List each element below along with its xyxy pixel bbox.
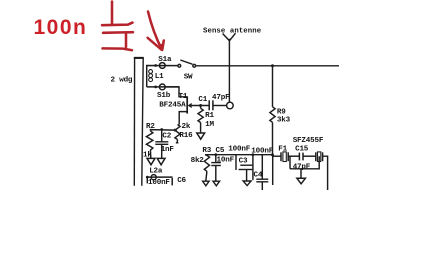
C6 plate bar — [171, 178, 173, 185]
T1 gate arrow — [188, 103, 192, 108]
wire coil bottom to S1b — [147, 86, 179, 88]
ferrite rod top bar — [134, 57, 144, 59]
junction dot rail bottom R9 — [271, 153, 274, 156]
ground R2 — [147, 158, 155, 164]
svg-text:R3 C5: R3 C5 — [202, 147, 224, 155]
svg-text:R2: R2 — [146, 123, 155, 131]
svg-text:R1: R1 — [205, 112, 214, 120]
svg-text:100n: 100n — [34, 16, 88, 39]
C4 lead top — [261, 155, 263, 179]
C1 plate left — [208, 100, 210, 110]
C2 lead top — [161, 130, 163, 142]
svg-text:1k: 1k — [143, 151, 152, 159]
C3 plate top — [240, 164, 252, 166]
C1 plate right — [212, 100, 214, 110]
R9 rail drop below — [272, 155, 274, 185]
S1a terminal circle — [159, 63, 165, 69]
junction dot coil bottom — [154, 86, 157, 89]
F1 plate left — [280, 152, 282, 161]
red sketched capacitor bottom bar — [103, 48, 133, 50]
R2 lead bottom — [149, 150, 151, 158]
R16 bottom tick — [176, 140, 179, 143]
R1 lead top — [200, 106, 202, 109]
R9 lead bottom — [272, 122, 274, 155]
bottom mid rail — [205, 154, 273, 156]
R1 lead bottom — [200, 123, 202, 133]
svg-text:S1a: S1a — [158, 56, 172, 64]
svg-text:C1: C1 — [198, 96, 207, 104]
svg-text:1M: 1M — [205, 121, 214, 129]
svg-text:2 wdg: 2 wdg — [111, 77, 133, 85]
C4 plate bottom — [256, 181, 268, 183]
antenna mast — [228, 41, 230, 103]
svg-text:100nF: 100nF — [228, 146, 250, 154]
svg-text:R16: R16 — [179, 132, 193, 140]
junction dot coil top — [154, 64, 157, 67]
ferrite rod left line — [133, 58, 135, 186]
resistor R9 — [270, 107, 275, 123]
red sketched capacitor plate 1 — [102, 23, 133, 26]
wire coil top to S1a — [147, 66, 178, 87]
switch lever — [180, 60, 192, 64]
node stub below L2a — [146, 177, 148, 183]
svg-text:R9: R9 — [277, 109, 286, 117]
resistor R2 — [146, 131, 153, 150]
F1 plate right — [287, 152, 289, 161]
F1 body box — [283, 152, 286, 162]
junction dot L2a — [146, 176, 149, 179]
F2 body box — [318, 152, 321, 162]
C4 left bar — [252, 155, 254, 180]
red sketched capacitor top lead — [111, 2, 114, 25]
svg-text:F1: F1 — [278, 146, 287, 154]
S1b terminal circle — [159, 84, 165, 90]
svg-text:SFZ455F: SFZ455F — [293, 137, 324, 145]
red sketched capacitor plate 2 — [103, 31, 133, 34]
svg-text:T1: T1 — [179, 93, 188, 101]
C3 lead bottom — [246, 170, 248, 181]
resistor R1 — [198, 108, 203, 122]
top rail wire — [196, 65, 339, 67]
svg-text:8k2: 8k2 — [191, 157, 205, 165]
C2 lead bottom — [161, 144, 163, 158]
svg-text:Sense antenne: Sense antenne — [203, 27, 262, 35]
svg-text:C15: C15 — [295, 146, 309, 154]
C5 plate top — [211, 162, 221, 164]
svg-text:L2a: L2a — [149, 167, 163, 175]
svg-text:C6: C6 — [177, 177, 186, 185]
wiper arrowhead — [174, 128, 177, 132]
R3 top corner — [205, 154, 207, 157]
ground R1 — [197, 133, 205, 139]
svg-text:47pF: 47pF — [293, 163, 311, 171]
antenna V right — [229, 33, 235, 41]
bracket ground lead — [300, 169, 302, 178]
coil L1 loop 1 — [149, 70, 153, 74]
C5 lead bottom — [215, 166, 217, 182]
svg-text:2k: 2k — [182, 123, 191, 131]
antenna V left — [223, 34, 230, 41]
wire C15 to F2 — [303, 155, 316, 157]
C2 plate top — [155, 141, 168, 143]
svg-text:47pF: 47pF — [212, 94, 230, 102]
junction dot gate node — [199, 104, 202, 107]
T1 channel bar — [186, 96, 188, 113]
junction dot C2 — [160, 128, 163, 131]
C3 rail corner drop — [235, 155, 237, 170]
svg-text:3k3: 3k3 — [277, 117, 291, 125]
coil L1 loop 3 — [149, 78, 153, 82]
ground C2 — [157, 158, 165, 164]
junction dot rail R9 — [271, 64, 274, 67]
svg-text:S1b: S1b — [157, 92, 171, 100]
C2 plate bottom — [155, 143, 168, 145]
red arrow barb left — [148, 38, 162, 50]
svg-text:C4: C4 — [254, 171, 263, 179]
C15 plate left — [298, 153, 300, 161]
svg-text:C2: C2 — [162, 132, 171, 140]
antenna terminal circle — [227, 102, 234, 109]
wire S1b to T1 drain — [165, 87, 187, 97]
R9 lead top — [272, 66, 274, 107]
coil L1 loop 2 — [149, 74, 153, 78]
ground filter — [297, 178, 306, 184]
F2 plate right — [322, 152, 324, 161]
svg-text:100nF: 100nF — [148, 179, 170, 187]
ferrite rod right line — [142, 58, 143, 186]
C5 plate bottom — [211, 165, 221, 167]
antenna apex arrow — [228, 39, 231, 42]
ground C3 — [243, 181, 251, 186]
C4 stub below — [261, 182, 263, 190]
T1 gate wire — [192, 105, 209, 107]
wire F1 to C15 — [288, 155, 299, 157]
junction dot C5 — [214, 153, 217, 156]
svg-text:C3: C3 — [239, 157, 248, 165]
L2a wire — [146, 176, 173, 178]
resistor R3 — [204, 155, 209, 171]
resistor R16 pot — [175, 125, 180, 140]
red arrow tip fill — [159, 44, 164, 51]
C5 lead top — [215, 155, 217, 163]
ground R3 — [203, 181, 210, 186]
filter rail left — [273, 155, 282, 157]
svg-text:L1: L1 — [155, 73, 164, 81]
C15 plate right — [302, 153, 304, 161]
R2 top wire with wiper — [150, 130, 174, 131]
switch pole small circle — [178, 64, 181, 67]
ground C5 — [213, 181, 220, 186]
switch throw small circle — [193, 64, 196, 67]
svg-text:10nF: 10nF — [217, 157, 235, 165]
svg-text:1nF: 1nF — [161, 146, 175, 154]
svg-text:100nF: 100nF — [251, 147, 273, 155]
svg-text:SW: SW — [184, 73, 193, 81]
red sketched capacitor lower lead — [125, 33, 128, 47]
svg-text:BF245A: BF245A — [159, 101, 186, 109]
C4 plate top — [256, 178, 268, 180]
T1 source lead — [179, 112, 187, 125]
junction dot C4 bar — [252, 153, 255, 156]
L2a circle — [151, 175, 156, 180]
red arrow shaft — [148, 12, 162, 50]
47pF bracket — [290, 156, 319, 169]
F2 plate left — [315, 152, 317, 161]
C3 plate bottom — [239, 169, 253, 171]
C1 coupling wire — [213, 105, 227, 107]
bracket drop left — [289, 156, 291, 169]
red arrow barb right — [162, 41, 164, 51]
R3 lead bottom — [206, 171, 207, 181]
filter out wire — [323, 156, 328, 190]
